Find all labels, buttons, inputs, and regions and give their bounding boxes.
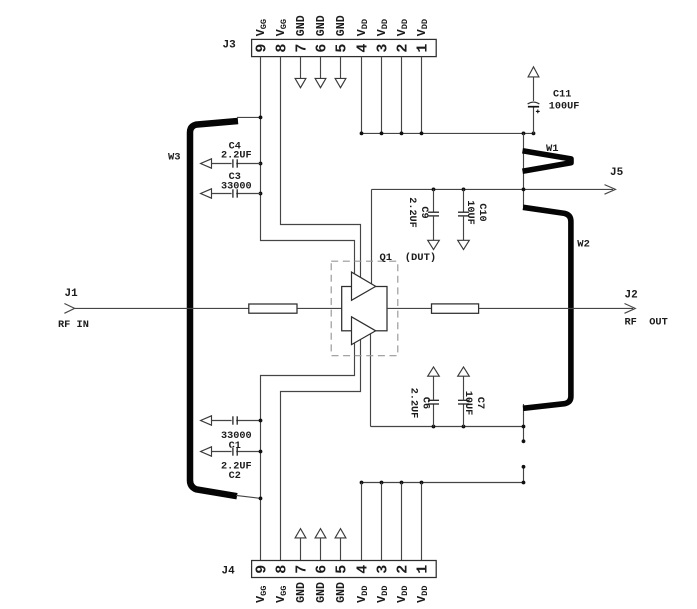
capacitor C11 plates (polarized) bbox=[528, 102, 540, 113]
node J5 line C9 bbox=[432, 188, 436, 192]
microstrip line input bbox=[249, 304, 297, 313]
svg-text:GND: GND bbox=[315, 582, 328, 603]
svg-text:3: 3 bbox=[374, 565, 391, 574]
connector J3 box bbox=[252, 39, 437, 56]
svg-text:GND: GND bbox=[335, 15, 348, 36]
svg-text:2.2UF: 2.2UF bbox=[406, 197, 417, 228]
capacitor C11 stem upper bbox=[533, 77, 535, 101]
wire J3 ground stem pin at x=320 bbox=[320, 57, 322, 79]
ground arrow J3 bbox=[335, 78, 346, 87]
wire J3 pin8 gate bias VGG bbox=[281, 57, 361, 289]
capacitor C3 plates bbox=[232, 189, 238, 198]
wire J3 VDD drop x=402 bbox=[401, 57, 403, 134]
node J5 line C10 bbox=[462, 188, 466, 192]
wire W3 top lead bbox=[237, 116, 261, 118]
node bottom bus x=362 bbox=[360, 481, 364, 485]
capacitor C7 stem lower bbox=[463, 404, 465, 427]
capacitor C7 plates bbox=[458, 400, 469, 404]
ground arrow C7 bbox=[458, 367, 470, 376]
svg-text:GND: GND bbox=[295, 582, 308, 603]
capacitor C4 plates bbox=[232, 159, 238, 168]
wire J3 ground stem pin at x=340 bbox=[340, 57, 342, 79]
wire J4 ground stem x=340 bbox=[340, 538, 342, 561]
node bottom rail C6 bbox=[432, 425, 436, 429]
node bottom bus stub terminal bbox=[522, 465, 526, 469]
svg-text:4: 4 bbox=[354, 565, 371, 574]
capacitor C6 stem lower bbox=[433, 404, 435, 427]
svg-text:10UF: 10UF bbox=[464, 200, 475, 224]
ground arrow C6 bbox=[428, 367, 440, 376]
node bottom bus x=402 bbox=[400, 481, 404, 485]
transistor Q1 body rect bbox=[342, 287, 387, 331]
node top rail W1 branch bbox=[522, 132, 526, 136]
wire J5 feed line bbox=[372, 188, 614, 190]
capacitor C4 wire bbox=[212, 163, 261, 165]
svg-text:10UF: 10UF bbox=[462, 391, 473, 415]
svg-text:1: 1 bbox=[414, 565, 431, 574]
wire J4 VDD riser x=382 bbox=[381, 483, 383, 561]
capacitor C11 stem lower bbox=[533, 107, 535, 133]
capacitor C3 wire bbox=[212, 193, 261, 195]
capacitor C6 stem upper bbox=[433, 376, 435, 400]
ground arrow C10 bbox=[458, 240, 470, 249]
ground arrow J4 bbox=[295, 529, 306, 538]
connector J1 arrow bbox=[64, 304, 74, 314]
capacitor C9 stem lower bbox=[433, 216, 435, 240]
node top rail x=362 bbox=[360, 132, 364, 136]
capacitor C7 stem upper bbox=[463, 376, 465, 400]
node top rail x=422 bbox=[420, 132, 424, 136]
svg-text:GND: GND bbox=[295, 15, 308, 36]
wire DUT output bbox=[387, 307, 432, 309]
wire RF input line bbox=[75, 307, 249, 309]
svg-text:J4: J4 bbox=[222, 566, 236, 578]
wire J3 VDD drop x=422 bbox=[421, 57, 423, 134]
svg-text:J2: J2 bbox=[625, 290, 638, 302]
svg-text:RF OUT: RF OUT bbox=[625, 316, 668, 328]
ground arrow J4 bbox=[335, 529, 346, 538]
svg-text:J3: J3 bbox=[223, 40, 237, 52]
capacitor C2 plates bbox=[232, 447, 238, 456]
svg-text:J5: J5 bbox=[610, 167, 624, 179]
wire bottom VDD bus bbox=[362, 482, 524, 484]
ground arrow C3 bbox=[201, 189, 212, 198]
svg-text:2.2UF: 2.2UF bbox=[221, 151, 252, 162]
bond wire W3 bbox=[190, 121, 238, 496]
node drain stub upper terminal bbox=[522, 439, 526, 443]
svg-text:W3: W3 bbox=[168, 152, 181, 164]
wire drain column lower (W2 bottom to stub terminal) bbox=[523, 404, 525, 441]
svg-text:9: 9 bbox=[253, 565, 270, 574]
svg-text:8: 8 bbox=[273, 565, 290, 574]
capacitor C9 stem upper bbox=[433, 189, 435, 212]
svg-text:GND: GND bbox=[315, 15, 328, 36]
svg-text:2: 2 bbox=[394, 44, 411, 53]
svg-text:W2: W2 bbox=[577, 238, 590, 250]
svg-text:5: 5 bbox=[333, 565, 350, 574]
svg-text:5: 5 bbox=[333, 44, 350, 53]
capacitor C1 plates bbox=[232, 416, 238, 425]
wire J3 pin9 gate bias VGG bbox=[261, 57, 355, 289]
node C2 junction bbox=[259, 450, 263, 454]
svg-text:C9: C9 bbox=[418, 206, 429, 218]
wire J3 VDD drop x=362 bbox=[361, 57, 363, 134]
svg-text:C7: C7 bbox=[474, 397, 485, 409]
connector J5 arrow bbox=[605, 185, 616, 195]
svg-text:C2: C2 bbox=[229, 471, 241, 482]
node bottom bus right end bbox=[522, 481, 526, 485]
wire J4 ground stem x=320 bbox=[320, 538, 322, 561]
svg-text:7: 7 bbox=[293, 44, 310, 53]
svg-text:7: 7 bbox=[293, 565, 310, 574]
node bottom bus x=422 bbox=[420, 481, 424, 485]
wire top VDD rail bbox=[362, 132, 534, 134]
svg-text:100UF: 100UF bbox=[549, 102, 580, 113]
node C4 junction bbox=[259, 162, 263, 166]
svg-text:C6: C6 bbox=[419, 397, 430, 409]
wire W3 bottom lead bbox=[236, 495, 261, 498]
svg-text:C11: C11 bbox=[553, 90, 571, 101]
node C1 junction bbox=[259, 419, 263, 423]
wire bottom drain rail bbox=[371, 426, 524, 428]
bond wire W2 bbox=[523, 207, 571, 408]
svg-text:3: 3 bbox=[374, 44, 391, 53]
node top rail C11 bbox=[532, 132, 536, 136]
svg-text:9: 9 bbox=[253, 44, 270, 53]
wire top drain feed into DUT bbox=[371, 189, 373, 288]
wire bottom bus stub bbox=[523, 467, 525, 483]
svg-text:RF IN: RF IN bbox=[58, 319, 89, 331]
wire J4 VDD riser x=362 bbox=[361, 483, 363, 561]
power arrow above C11 bbox=[528, 67, 539, 77]
node bottom bus x=382 bbox=[380, 481, 384, 485]
svg-text:Q1 (DUT): Q1 (DUT) bbox=[380, 252, 437, 264]
microstrip line output bbox=[432, 304, 479, 313]
svg-text:C10: C10 bbox=[476, 203, 487, 221]
capacitor C2 wire bbox=[212, 451, 261, 453]
wire RF output line bbox=[479, 307, 633, 309]
wire J4 pin8 gate bias VGG bbox=[281, 329, 361, 561]
wire drain column upper (rail to W2 top) bbox=[523, 133, 525, 207]
ground arrow J3 bbox=[295, 78, 306, 87]
ground arrow J3 bbox=[315, 78, 326, 87]
wire J4 pin9 gate bias VGG bbox=[261, 329, 355, 561]
node C3 junction bbox=[259, 192, 263, 196]
transistor Q1 dashed outline bbox=[331, 261, 398, 356]
wire J4 VDD riser x=402 bbox=[401, 483, 403, 561]
node top rail x=382 bbox=[380, 132, 384, 136]
svg-text:1: 1 bbox=[414, 44, 431, 53]
svg-text:2.2UF: 2.2UF bbox=[407, 388, 418, 419]
capacitor C10 stem lower bbox=[463, 216, 465, 240]
ground arrow C2 bbox=[201, 447, 212, 456]
ground arrow C1 bbox=[201, 416, 212, 425]
wire input line to DUT bbox=[297, 307, 342, 309]
capacitor C10 stem upper bbox=[463, 189, 465, 212]
capacitor C1 wire bbox=[212, 420, 261, 422]
node bottom rail C7 bbox=[462, 425, 466, 429]
svg-text:33000: 33000 bbox=[221, 182, 252, 193]
svg-text:4: 4 bbox=[354, 44, 371, 53]
svg-text:6: 6 bbox=[313, 44, 330, 53]
wire J3 ground stem pin at x=300 bbox=[300, 57, 302, 79]
ground arrow C9 bbox=[428, 240, 440, 249]
transistor Q1 upper amp triangle bbox=[352, 272, 376, 300]
ground arrow C4 bbox=[201, 159, 212, 168]
node bottom rail right end bbox=[522, 425, 526, 429]
node W3 top junction bbox=[259, 116, 263, 120]
node J5 line W branch bbox=[522, 188, 526, 192]
wire J4 ground stem x=300 bbox=[300, 538, 302, 561]
connector J2 arrow bbox=[625, 304, 636, 314]
svg-text:J1: J1 bbox=[65, 288, 79, 300]
node top rail x=402 bbox=[400, 132, 404, 136]
wire J4 VDD riser x=422 bbox=[421, 483, 423, 561]
ground arrow J4 bbox=[315, 529, 326, 538]
wire bottom drain feed into DUT bbox=[370, 329, 372, 427]
transistor Q1 lower amp triangle bbox=[352, 317, 376, 345]
svg-text:W1: W1 bbox=[546, 143, 559, 155]
node W3 bottom junction bbox=[259, 497, 263, 501]
svg-text:2: 2 bbox=[394, 565, 411, 574]
svg-text:6: 6 bbox=[313, 565, 330, 574]
capacitor C10 plates bbox=[458, 212, 469, 216]
svg-text:GND: GND bbox=[335, 582, 348, 603]
svg-text:8: 8 bbox=[273, 44, 290, 53]
wire J3 VDD drop x=382 bbox=[381, 57, 383, 134]
connector J4 box bbox=[252, 561, 437, 578]
capacitor C9 plates bbox=[428, 212, 439, 216]
capacitor C6 plates bbox=[428, 400, 439, 404]
bond wire W1 bbox=[523, 151, 572, 171]
